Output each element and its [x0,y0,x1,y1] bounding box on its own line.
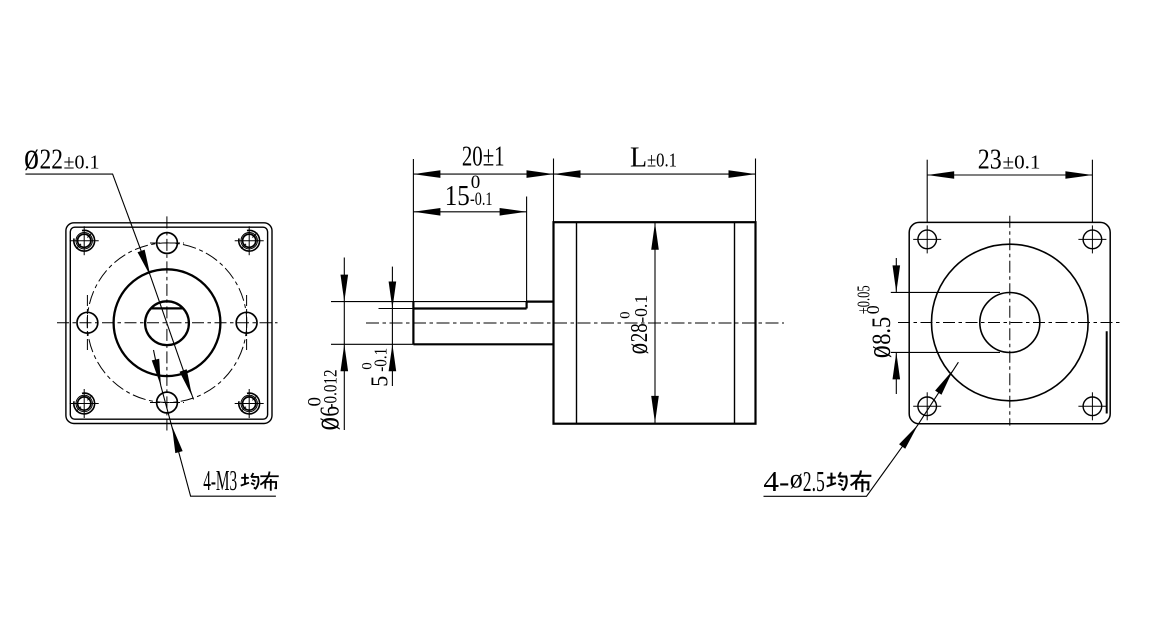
flat step [525,302,527,309]
svg-text:0: 0 [359,362,375,370]
svg-text:5: 5 [367,376,393,387]
horizontal centerline [57,322,278,324]
corner hole TR [1078,225,1106,253]
dim line dia28 [654,223,656,423]
svg-text:4-: 4- [763,467,789,498]
ext line dia8.5 bottom [891,351,1000,353]
svg-text:15: 15 [445,181,470,212]
svg-text:20±1: 20±1 [462,142,505,173]
shaft bottom extension (thin) [331,343,413,345]
right view square [909,222,1110,423]
svg-text:ø: ø [24,136,39,178]
leader 4-dia2.5 [764,362,959,496]
svg-text:0: 0 [618,312,634,319]
corner screw TR [235,226,264,255]
dim line 15 [413,211,526,213]
top bolt hole [157,233,178,254]
svg-text:L: L [630,143,647,174]
svg-text:ø: ø [306,417,346,431]
ext line shaft face up [412,159,414,302]
corner hole TL [913,225,941,253]
svg-text:±0.1: ±0.1 [64,152,100,174]
svg-text:22: 22 [40,145,64,176]
body rectangle [554,222,756,424]
shaft flat chord [151,307,183,309]
shaft flat edge extension (thin) [379,308,414,310]
ext line flat step up [526,197,528,302]
svg-text:ø: ø [861,345,898,358]
svg-text:4-M3: 4-M3 [203,466,237,497]
svg-text:2.5: 2.5 [803,467,825,498]
svg-text:±0.1: ±0.1 [1003,152,1041,174]
corner hole BL [913,392,941,420]
shaft circle [145,301,189,345]
ext line dia8.5 top [891,291,1000,293]
svg-text:0: 0 [863,305,883,314]
horizontal centerline [898,322,1121,324]
vertical centerline [166,216,168,430]
dim line 5 [391,267,393,386]
ext line body left up [553,159,555,223]
right end cap line [734,222,736,424]
svg-text:ø: ø [619,343,654,355]
left bolt hole [77,312,98,333]
bold segment near right edge [1106,331,1108,413]
leader line for 4-M3 [154,350,276,496]
dim line dia8.5 [895,258,897,292]
center hole dia8.5 [980,293,1040,353]
corner hole BR [1078,392,1106,420]
vertical centerline [1009,216,1011,426]
dim line 20 [413,173,553,175]
shaft top silhouette (bold) [527,301,554,303]
shaft top extension (thin) [331,301,527,303]
svg-text:-0.1: -0.1 [470,189,493,210]
shaft bottom (bold) [413,343,553,345]
pilot circle (bold) [114,269,221,376]
ext line 23 right [1091,160,1093,223]
svg-text:0: 0 [305,397,326,407]
center axis line [366,322,784,324]
svg-text:8.5: 8.5 [866,317,896,345]
corner screw BL [70,389,99,418]
right bolt hole [236,312,257,333]
left end cap line [576,222,578,424]
ext line body right up [755,159,757,223]
shaft flat edge (bold) [413,307,526,309]
big circle [932,244,1089,401]
dim line dia6 [343,258,345,431]
bolt circle (dash-dot) [87,243,247,403]
corner screw BR [235,389,264,418]
leader line for dia22 [25,174,193,399]
corner screw TL [70,226,99,255]
svg-text:28: 28 [626,323,653,342]
dim line L [554,173,756,175]
left view outer square [66,223,272,424]
svg-text:±0.1: ±0.1 [647,150,677,172]
svg-text:ø: ø [790,464,803,494]
dim line 23 [927,174,1092,176]
ext line 23 left [926,160,928,223]
svg-text:-0.1: -0.1 [631,295,651,323]
bottom bolt hole [157,392,178,413]
shaft front face [412,302,414,345]
left view inner square [70,227,267,419]
svg-text:23: 23 [978,145,1002,176]
